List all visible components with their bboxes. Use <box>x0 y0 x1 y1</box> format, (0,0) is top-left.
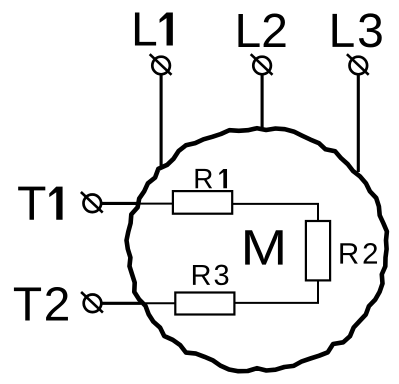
motor M body (stator circle) <box>127 128 387 371</box>
wire L1 to motor <box>160 74 163 166</box>
terminal L1 <box>150 54 172 75</box>
resistor R2 <box>306 221 330 280</box>
wire T1 to motor <box>101 202 137 205</box>
label L3 <box>332 13 381 47</box>
label R2 <box>340 243 377 264</box>
wire motor edge to R3 <box>138 302 176 304</box>
terminal T1 <box>81 192 103 213</box>
label T1 <box>18 187 62 220</box>
wire L2 to motor <box>261 74 264 128</box>
label R3 <box>193 265 228 286</box>
label T2 <box>14 287 68 321</box>
label L1 <box>135 12 173 45</box>
wire R3 to R2 bottom <box>234 280 318 303</box>
terminal L2 <box>251 54 273 75</box>
wire T2 to motor <box>101 302 141 305</box>
label L2 <box>238 13 285 47</box>
label R1 <box>196 169 228 188</box>
terminal L3 <box>347 54 369 75</box>
wire motor edge to R1 <box>133 203 174 205</box>
terminal T2 <box>81 292 103 313</box>
wire R1 to R2 top <box>232 204 318 222</box>
label M (motor) <box>245 230 282 264</box>
resistor R3 <box>175 293 234 315</box>
resistor R1 <box>173 191 232 214</box>
wire L3 to motor <box>357 74 360 172</box>
